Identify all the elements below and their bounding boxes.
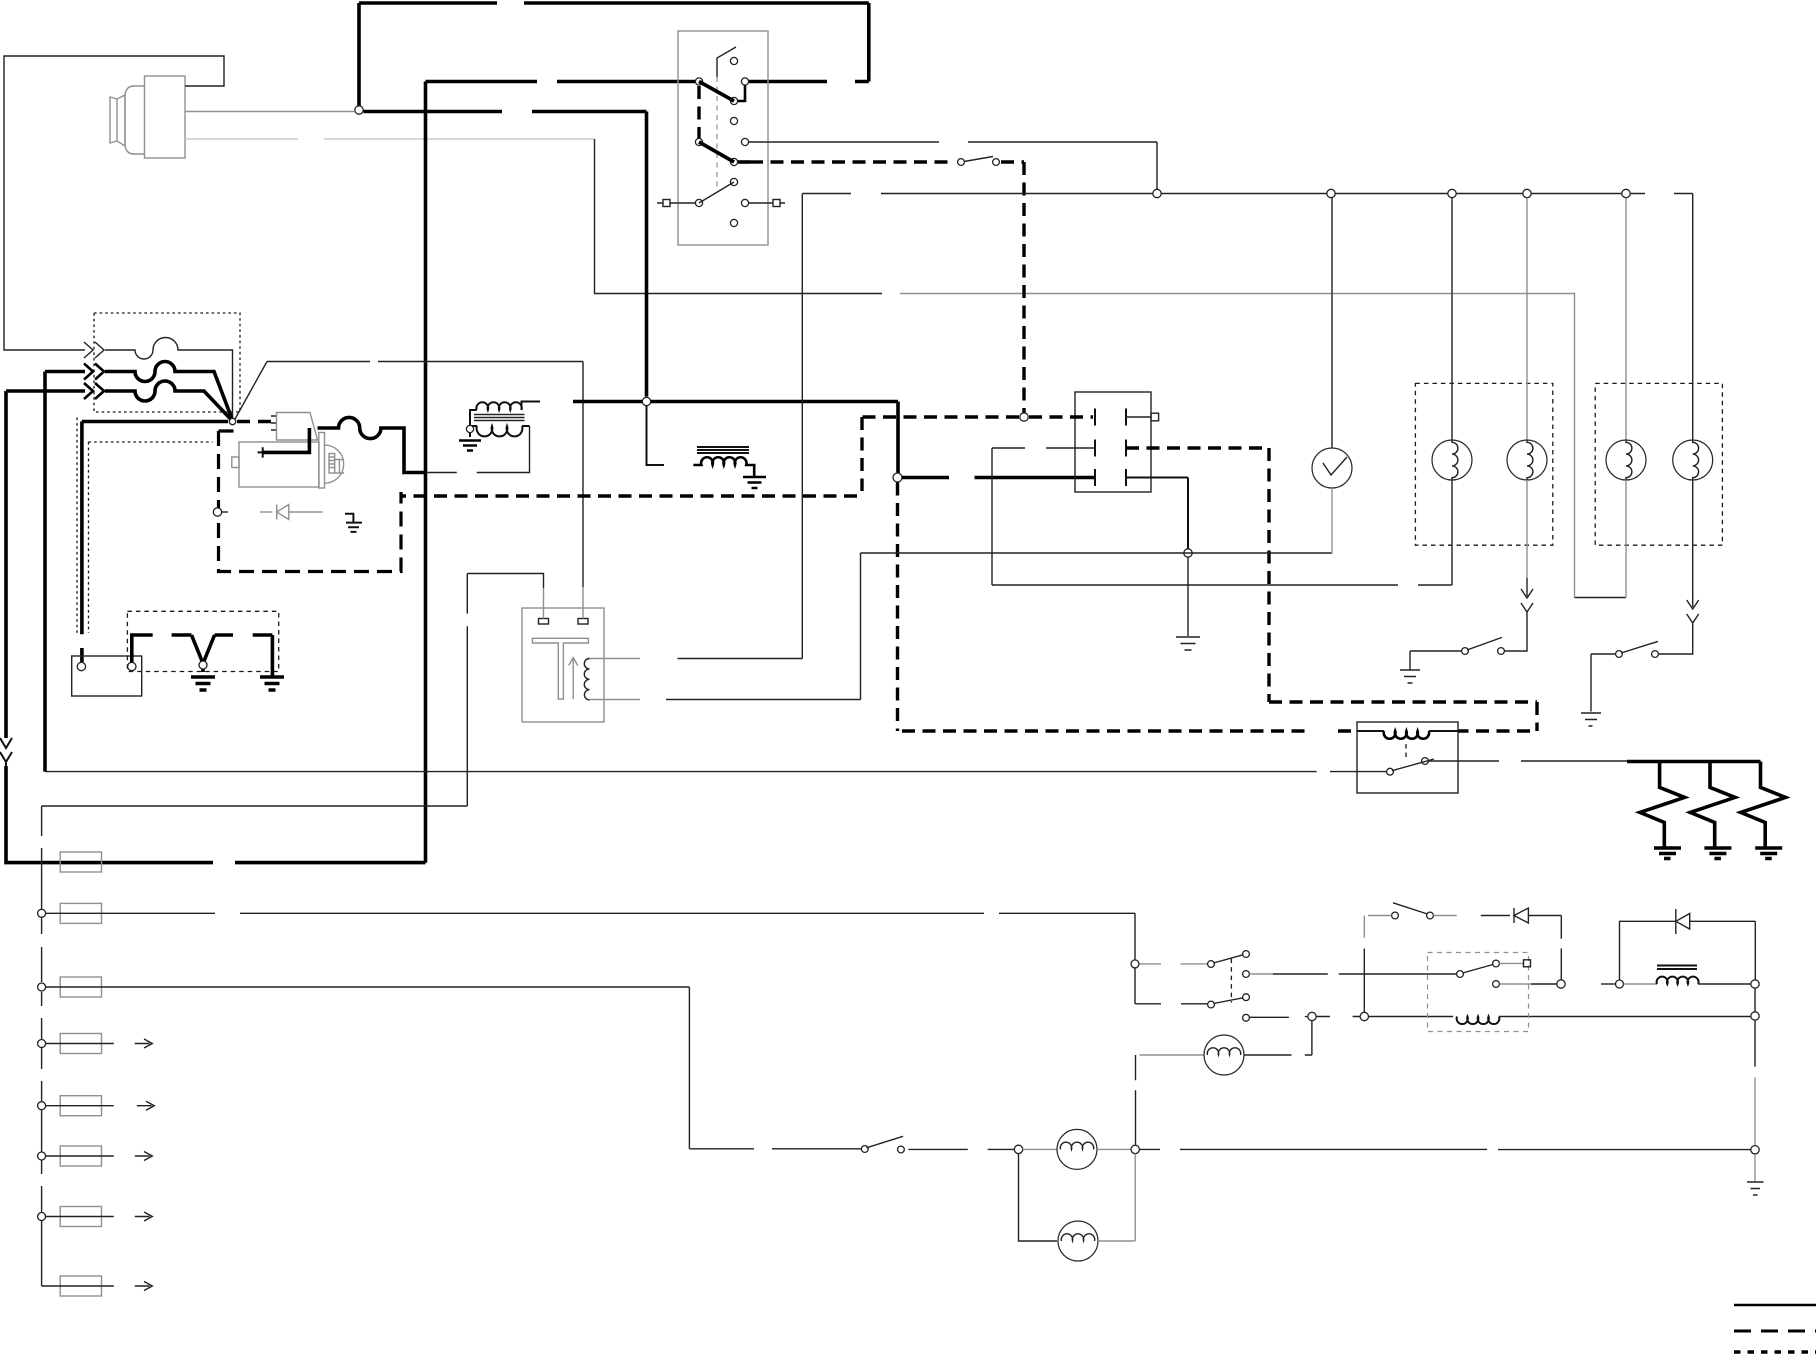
tail lamp B right lead	[1098, 1154, 1135, 1241]
chassis ground 2 (engine)	[260, 677, 284, 690]
bus node lamp1	[1448, 189, 1456, 197]
lamp2 filament	[1527, 440, 1533, 480]
wire y553 from gauge riser to clock	[861, 552, 1333, 554]
lamp2 lower lead	[1526, 480, 1528, 578]
battery terminal +	[77, 662, 85, 670]
wire pole A lower contact to relay pivot	[1250, 973, 1274, 975]
ignition switch dashed bar pole1-pole2	[697, 86, 700, 138]
fuel gauge right stud	[578, 619, 588, 625]
relay K2 blade	[1463, 965, 1494, 974]
fuse bus node F7	[38, 1213, 46, 1221]
lamp3 lower lead to feed loop	[1625, 480, 1627, 598]
dimmer pole A contacts	[1208, 961, 1215, 968]
wire node to dimmer pole A	[1140, 963, 1208, 965]
ignition coil secondary left lead	[470, 425, 477, 427]
lamp1 filament	[1452, 440, 1458, 480]
dimmer pole B upper contact	[1243, 994, 1250, 1001]
branch to tail lamp B	[1019, 1154, 1058, 1241]
heating resistor R2	[1690, 762, 1735, 848]
wire: distributor middle terminal to junction node	[185, 111, 354, 113]
lamp1 drop wire	[1451, 198, 1453, 440]
connector row3 chevrons	[84, 383, 104, 399]
heavy riser x45	[43, 372, 47, 772]
fuse F6	[60, 1146, 101, 1166]
dashed start wire run	[750, 160, 955, 163]
starter bell housing	[325, 445, 344, 483]
switch SW5 blade	[1393, 903, 1428, 914]
ground symbol below node	[1176, 637, 1200, 650]
starter mount flange	[319, 433, 325, 489]
start-circuit inline switch contacts	[958, 159, 965, 166]
lighting net segment	[1316, 1016, 1360, 1018]
main junction node of harness	[229, 418, 235, 424]
ignition switch key detent lever	[717, 47, 736, 77]
fuse F2 wire to headlight feed	[46, 913, 1135, 960]
tail lamp circuit wire y1149	[689, 1148, 861, 1150]
switch SW3 blade	[1467, 637, 1502, 650]
headlight feed node	[1131, 960, 1139, 968]
node L2 / ground stack	[1751, 980, 1759, 988]
ignition coil core	[474, 415, 525, 421]
legend dotted line	[1734, 1350, 1816, 1354]
relay K2 pivot	[1457, 971, 1464, 978]
ground stack wire upper	[1754, 1020, 1756, 1066]
D3 drop to node	[1754, 921, 1756, 980]
fuse bus node F3	[38, 983, 46, 991]
legend solid line	[1734, 1304, 1816, 1307]
ignition switch gray link	[716, 77, 718, 188]
node lighting net / headlamp	[1308, 1012, 1316, 1020]
dimmer pole B lower contact	[1243, 1014, 1250, 1021]
clock M1	[1312, 448, 1352, 488]
fuse F7 wire and arrow	[46, 1212, 153, 1221]
battery terminal -	[128, 662, 136, 670]
start-circuit inline switch blade	[964, 157, 993, 162]
fuse bus node F5	[38, 1102, 46, 1110]
ground stack wire	[1754, 988, 1756, 1012]
ground at SW3	[1400, 670, 1420, 683]
lamp3 (panel light)	[1606, 440, 1646, 480]
heavy wire node to relay row3	[902, 476, 1095, 480]
switch SW4 wire to ground	[1591, 654, 1615, 712]
dimmer pole B blade	[1214, 998, 1244, 1004]
headlamp right lead to net	[1244, 1021, 1312, 1055]
dimmer pole A lower contact	[1243, 971, 1250, 978]
node: coil feed / x646 rail	[642, 397, 650, 405]
heavy riser x6 lower part into fuse 1	[6, 766, 426, 863]
Y node circle	[199, 661, 207, 669]
horn relay blade	[1392, 759, 1434, 771]
wire dimmer to relay K2 pivot	[1273, 973, 1457, 975]
wire: gray segment of panel light feed to right side	[900, 294, 1575, 598]
ignition switch pole3 right stub	[749, 202, 785, 204]
node diode D2 tie	[1557, 980, 1565, 988]
switch SW5 right contact	[1427, 912, 1434, 919]
start relay pin bars	[1095, 409, 1126, 487]
SW5 feed from lighting net	[1368, 915, 1392, 917]
lamp supply bus right portion and lamp4 drop	[1161, 194, 1693, 441]
feed drop to pole B	[1134, 968, 1136, 1004]
diode D3 loop up	[1620, 921, 1676, 980]
tail lamp A filament	[1060, 1142, 1093, 1149]
heating resistor R1	[1640, 762, 1685, 848]
node lighting net / ground stack	[1751, 1012, 1759, 1020]
wire gauge coil bottom to y553 riser	[666, 699, 861, 701]
dimmer pole A blade	[1214, 955, 1244, 963]
dotted guard right of battery cable	[88, 442, 90, 633]
ignition switch pole1 hook to right terminal	[738, 85, 745, 101]
wire: elbow bottom to lamp3 drop	[1575, 597, 1627, 599]
bus node to clock	[1153, 189, 1161, 197]
lamp3 filament	[1626, 440, 1632, 480]
tail circuit after switch	[908, 1148, 1014, 1150]
tail lamp A right lead	[1097, 1148, 1131, 1150]
ignition coil T1: primary winding	[476, 402, 521, 410]
ignition coil junction circle	[466, 425, 473, 432]
clock bottom lead	[1331, 488, 1333, 553]
switch SW3 right contact	[1498, 648, 1505, 655]
tail lamp A lead	[1023, 1148, 1057, 1150]
horn relay output wire	[1429, 760, 1628, 762]
gauge riser x860.5	[860, 553, 862, 700]
distributor shaft tip	[110, 97, 117, 143]
inline Y connector lamp2 wire	[1521, 603, 1533, 624]
relay row3 right lead down to ground net	[1126, 478, 1188, 549]
lamp box A dashed	[1415, 383, 1552, 545]
distributor outer case	[145, 76, 186, 158]
switch SW5 contacts	[1392, 912, 1399, 919]
main lighting net y1016	[1250, 1016, 1309, 1019]
ground cable continues right to second ground	[215, 635, 273, 677]
lighting net into relay K2	[1369, 1016, 1454, 1018]
wire SW5 to diode D2	[1481, 915, 1510, 917]
ignition coil primary left lead	[470, 410, 477, 437]
fuel gauge coil top lead	[590, 658, 641, 660]
heavy wire: main battery rail y81.5 into ignition switch	[426, 80, 828, 84]
fuel gauge coil bottom lead	[590, 699, 641, 701]
relay K2 lower contact wire	[1500, 983, 1532, 985]
relay K2 lower contact	[1493, 981, 1500, 988]
D2 drop to node	[1560, 916, 1562, 980]
wire: accessory output of switch to lamp bus	[749, 142, 1157, 190]
horn relay K3 box	[1357, 722, 1458, 793]
SW5 feed riser lower	[1363, 949, 1365, 1013]
dashed start wire from ignition switch	[738, 160, 750, 164]
dashed net lower run through horn relay coil	[902, 729, 1357, 732]
ballast choke ground	[743, 477, 766, 488]
headlamp left lead riser to tail net	[1135, 1055, 1137, 1145]
inline arrow connector lamp4 wire	[1687, 592, 1699, 609]
heavy wavy cable solenoid to rail	[318, 417, 426, 472]
junction node: distributor feed tap	[355, 106, 363, 114]
switch SW4 right contact	[1652, 651, 1659, 658]
gauge right terminal wire	[582, 587, 584, 619]
lamp3 drop wire	[1625, 198, 1627, 440]
node lighting net / beam switch	[1360, 1012, 1368, 1020]
fuse F3	[60, 977, 101, 997]
distributor shaft cone	[117, 95, 125, 146]
wire: distributor lower terminal (light)	[185, 138, 595, 140]
fuel gauge T plate	[532, 638, 588, 699]
node tail lamps right	[1131, 1145, 1139, 1153]
solenoid coil L2 winding	[1657, 977, 1699, 984]
heavy resistor bank bus	[1627, 760, 1761, 764]
dashed drop from node to lower dashed net	[896, 483, 899, 732]
clock M1 top lead	[1331, 198, 1333, 449]
bus node lamp3	[1622, 189, 1630, 197]
fuel gauge terminal studs	[539, 619, 549, 625]
ignition coil ground	[459, 441, 481, 451]
node: start relay feed junction	[893, 473, 902, 482]
lamp1 (instrument)	[1432, 440, 1472, 480]
ignition switch pole3 right terminal square	[773, 200, 780, 207]
heavy wire: main vertical rail x425.5	[424, 82, 428, 863]
node row3/clock net	[1184, 549, 1192, 557]
dimmer pole B contacts	[1208, 1001, 1215, 1008]
node diode D3 tie	[1616, 980, 1624, 988]
dotted guard horizontal	[89, 441, 213, 443]
heavy starter feed lead inside	[263, 428, 310, 452]
starter solenoid pins	[271, 416, 277, 430]
starter fork bracket	[335, 460, 344, 474]
starter motor body	[239, 442, 319, 487]
SW5 feed riser upper	[1363, 916, 1365, 938]
horn relay coil winding	[1384, 731, 1429, 739]
relay row2 right dashed wire	[1126, 448, 1537, 731]
starter positive stud	[258, 447, 269, 457]
horn relay contacts	[1387, 768, 1394, 775]
fuse F1	[60, 852, 101, 872]
tail lamp B filament	[1061, 1234, 1094, 1241]
starter pinion teeth	[329, 454, 335, 474]
clock hands	[1323, 457, 1347, 475]
lamp2 (beam indicator)	[1507, 440, 1547, 480]
heavy wire: vertical at x359 to junction circle	[357, 3, 361, 106]
battery ground harness dashed box	[127, 611, 278, 671]
fuse F8 wire and arrow	[42, 1282, 153, 1291]
bus node clock	[1327, 189, 1335, 197]
inline Y connector lamp4 wire	[1687, 614, 1699, 628]
dimmer pole A upper contact	[1243, 951, 1250, 958]
wire to dimmer pole B	[1135, 1003, 1207, 1005]
ground at R2	[1704, 848, 1731, 859]
switch SW4 blade	[1621, 641, 1658, 653]
ignition switch contact circles	[695, 57, 748, 226]
diode D2	[1514, 908, 1561, 923]
L2 right lead	[1698, 983, 1751, 985]
start-circuit inline switch contact B	[993, 159, 1000, 166]
wire D2 node to D3 node	[1601, 983, 1615, 985]
tail switch SW6 blade	[867, 1136, 904, 1148]
tail switch SW6 right contact	[898, 1146, 905, 1153]
ignition coil secondary right lead	[522, 425, 530, 427]
fuse bus vertical	[41, 806, 43, 1286]
ground symbol stack	[1747, 1182, 1764, 1195]
enclosure terminal tick	[222, 511, 228, 513]
ground hook inside enclosure	[345, 514, 362, 532]
fuse F4 wire and arrow	[46, 1039, 153, 1048]
relay row1 terminal square	[1151, 413, 1159, 421]
stub from node down with open contact hook	[647, 406, 665, 465]
relay K2 dashed box	[1428, 953, 1529, 1032]
accessory wire y361.5 to fuel gauge drop	[267, 362, 583, 588]
battery G1 case	[72, 656, 142, 696]
gauge left terminal wire from fuse bus	[543, 588, 545, 619]
dashed start wire heads left to engine enclosure	[401, 417, 1019, 496]
lighting net to ground stack	[1499, 1016, 1751, 1018]
bus node lamp2	[1523, 189, 1531, 197]
chassis ground 1 (battery)	[191, 677, 215, 690]
dashed row1 into relay	[1029, 415, 1093, 418]
enclosure terminal circle	[213, 508, 221, 516]
wire K2 contact to D2 node	[1531, 983, 1557, 985]
lamp4 (high beam)	[1673, 440, 1713, 480]
fuse F7	[60, 1207, 101, 1227]
wire D3 node to coil L2	[1624, 983, 1658, 985]
dashed start wire continues and drops at x1024	[1001, 162, 1024, 413]
ignition switch pole3 blade	[699, 182, 734, 203]
dimmer gang dashed link	[1230, 959, 1232, 1003]
connector row2 chevrons	[84, 364, 104, 380]
ground stack wire lower	[1754, 1154, 1756, 1181]
dashed link junction to solenoid pins	[237, 420, 271, 424]
fuse bus node F6	[38, 1152, 46, 1160]
connector J1 dotted box	[94, 313, 240, 412]
lamp1 lower lead hook	[1418, 480, 1452, 585]
heavy battery cable from junction to battery	[82, 422, 228, 663]
relay row2 left wire looping under	[992, 448, 1398, 585]
wire row2: heavy lead from x45 riser through wavy to junction	[45, 362, 232, 420]
ignition switch S1 body	[678, 31, 768, 245]
fuel gauge U1 box	[522, 608, 604, 722]
connector row1 chevrons	[84, 342, 104, 358]
relay K2 coil on lighting net	[1457, 1017, 1500, 1025]
diode D1 inside enclosure	[260, 505, 323, 520]
ground at R3	[1755, 848, 1782, 859]
ground at R1	[1654, 848, 1681, 859]
lamp4 filament	[1693, 440, 1699, 480]
solenoid coil L2 core	[1657, 966, 1697, 970]
fuse F2	[60, 903, 101, 923]
heavy wire: y111.5 run to x646 drop	[364, 112, 647, 397]
horn relay fixed contact	[1422, 758, 1429, 765]
thin branch from junction up to accessory wire	[235, 362, 267, 420]
horn relay coil on dashed net	[1357, 730, 1384, 732]
fuse F6 wire and arrow	[46, 1152, 153, 1161]
coil feed wire y401.5	[573, 402, 898, 474]
dotted guard left of battery cable	[76, 418, 78, 634]
tail switch SW6 contacts	[861, 1146, 868, 1153]
ground stack wire middle	[1754, 1077, 1756, 1145]
relay row1 right lead to terminal square	[1126, 416, 1151, 418]
ignition coil primary right lead	[522, 402, 541, 411]
lamp box B dashed	[1595, 383, 1722, 545]
fuse F3 wire to lighting feed	[46, 987, 690, 1149]
node tail net / ground stack	[1751, 1146, 1759, 1154]
distributor / ignition unit body	[110, 76, 185, 158]
wire gauge coil top to bus riser	[678, 194, 803, 659]
ignition switch pole1 blade	[699, 82, 734, 102]
fuel gauge coil	[584, 659, 589, 700]
switch SW3 contacts	[1462, 648, 1469, 655]
lamp4 lower lead	[1692, 480, 1694, 592]
heating resistor R3	[1741, 762, 1786, 848]
starter end nub	[232, 457, 239, 468]
wire gauge feed from fuse bus corner	[42, 574, 544, 807]
ground cable Y split	[192, 635, 215, 672]
lamp2 wire to switch	[1505, 624, 1527, 651]
wire: lower terminal continuation down and right (panel light feed)	[595, 139, 883, 294]
fuse F8	[60, 1276, 101, 1296]
ignition coil secondary winding	[477, 426, 523, 436]
ballast choke L1 core	[697, 447, 749, 453]
headlamp low-beam bulb	[1204, 1035, 1244, 1075]
wire row1: thin wavy lead to junction	[105, 338, 233, 418]
SW5 to diode D2	[1434, 915, 1457, 917]
ignition switch pole3 left terminal square	[663, 200, 670, 207]
relay K2 upper contact	[1493, 960, 1500, 967]
lamp2 drop wire	[1526, 198, 1528, 440]
switch SW4 contacts	[1616, 651, 1623, 658]
fuse bus node F4	[38, 1040, 46, 1048]
ground drop from node	[1187, 558, 1189, 637]
relay K2 terminal square	[1524, 960, 1531, 967]
node on dashed start wire	[1020, 413, 1028, 421]
heavy feed wire: top loop from junction over to ignition switch	[359, 3, 869, 82]
tail lamp B	[1058, 1221, 1098, 1261]
horn relay coil right lead	[1429, 730, 1458, 732]
heavy riser x6 with inline connector arrow	[4, 391, 8, 738]
inline connector arrow on x6 riser	[0, 738, 12, 766]
fuse F5 wire and arrow	[46, 1101, 155, 1110]
headlamp filament	[1207, 1048, 1240, 1055]
switch SW3 wire to ground	[1410, 651, 1461, 670]
diode D3	[1676, 909, 1756, 934]
relay K2 upper contact stub to terminal	[1500, 962, 1524, 964]
horn relay armature dashed link	[1405, 744, 1407, 759]
lamp4 wire to switch2	[1659, 628, 1693, 654]
engine unit dashed enclosure	[219, 431, 402, 572]
wire row3: heavy lead from x6 riser through wavy to junction	[6, 381, 232, 421]
tail lamp A	[1057, 1129, 1097, 1169]
heater feed wire y771.6	[45, 771, 1386, 773]
ignition switch pole2 blade	[699, 142, 734, 162]
fuse F4	[60, 1034, 101, 1054]
fuse bus nodes	[38, 909, 46, 917]
starter solenoid body	[277, 413, 318, 441]
legend dashed line	[1734, 1330, 1816, 1333]
ground at SW4	[1581, 713, 1601, 726]
wire: distributor top terminal loop to left edge down to connector row1	[4, 56, 224, 350]
fuel gauge needle arrow	[569, 658, 578, 700]
fuse F5	[60, 1096, 101, 1116]
thin link rail to ignition coil secondary	[426, 426, 530, 473]
inline arrow connector lamp2 wire	[1521, 578, 1533, 598]
lamp supply bus y193.5	[802, 193, 1157, 195]
heavy ground cable from battery - terminal	[132, 635, 192, 662]
ballast choke L1 winding	[693, 457, 754, 476]
tail net long wire to ground stack	[1140, 1148, 1751, 1150]
start relay K1 box	[1075, 392, 1151, 492]
ignition switch pole3 left stub	[657, 202, 695, 204]
headlamp low-beam lead	[1140, 1054, 1205, 1056]
node tail lamps left	[1014, 1145, 1022, 1153]
distributor cap body	[125, 86, 145, 154]
